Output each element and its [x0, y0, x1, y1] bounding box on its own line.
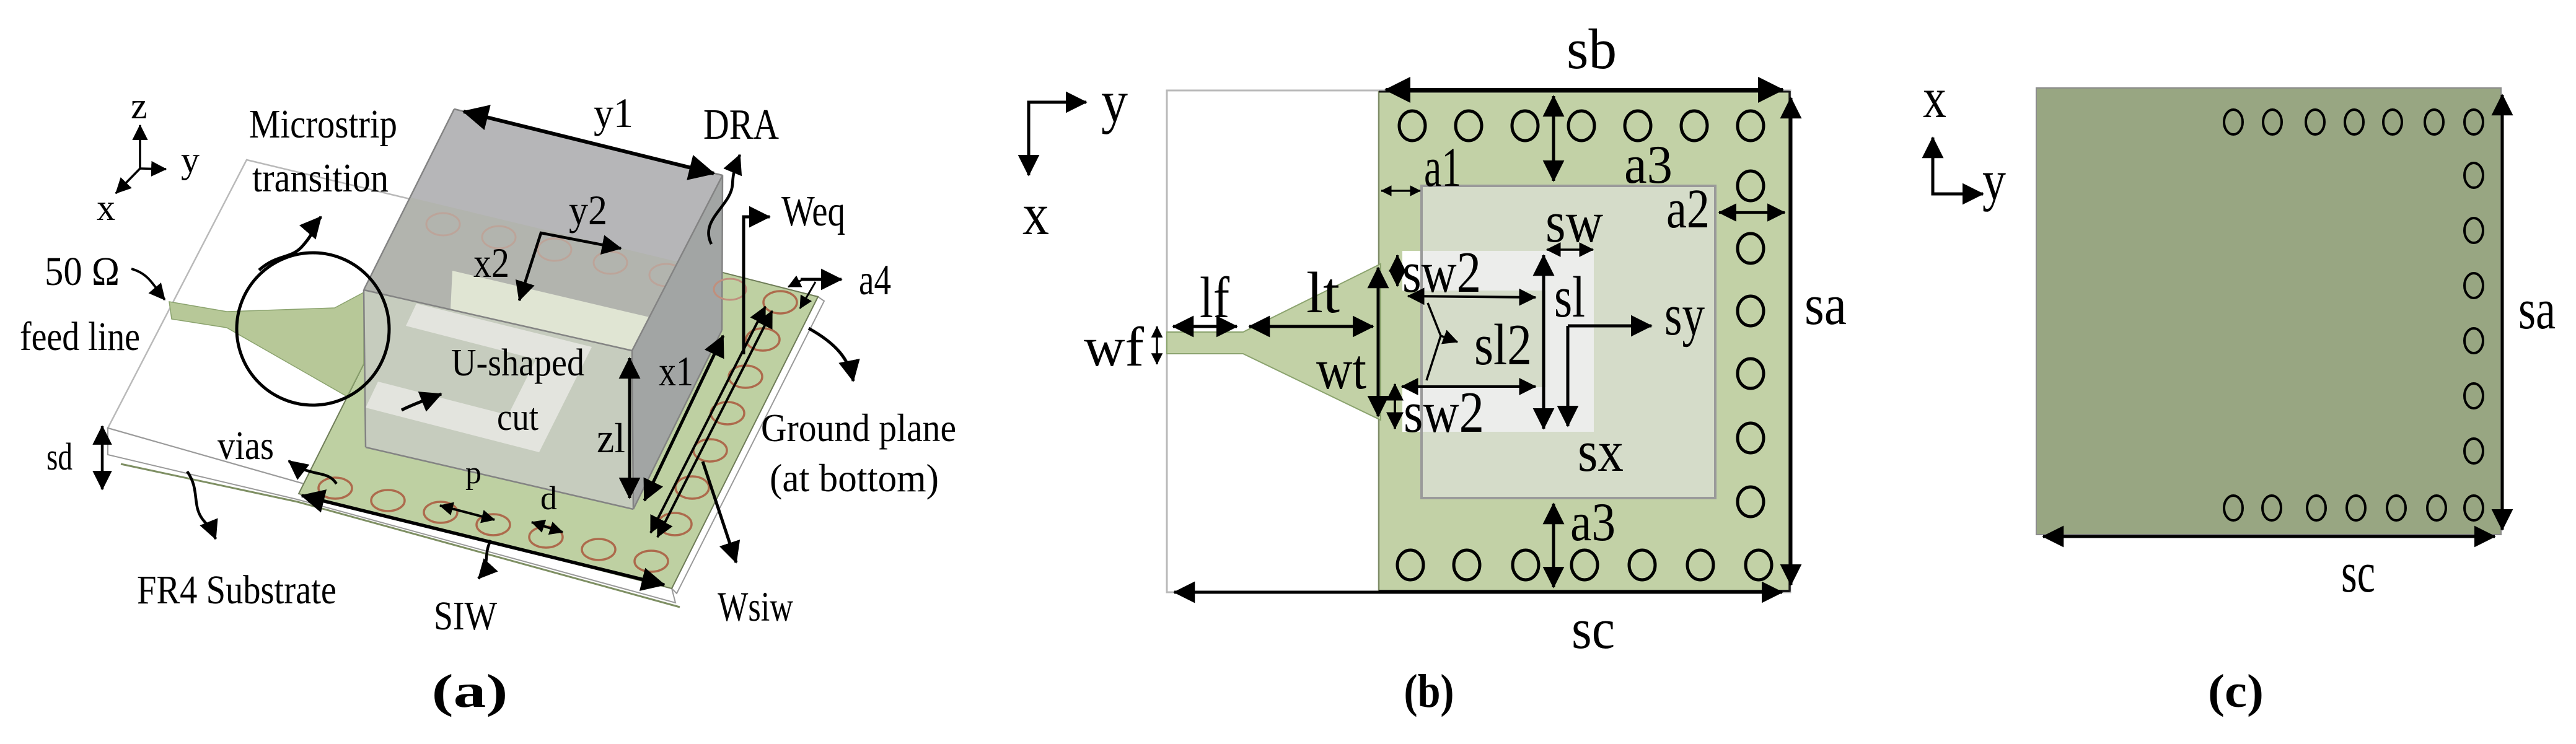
- sx arrow: [1567, 326, 1570, 426]
- svg-text:p: p: [465, 455, 481, 491]
- y1 arrow: [464, 112, 714, 173]
- svg-text:lf: lf: [1200, 266, 1230, 330]
- svg-text:sl2: sl2: [1474, 313, 1532, 377]
- box floor band: [451, 271, 649, 351]
- svg-text:(at bottom): (at bottom): [770, 456, 939, 500]
- vias bottom row (c): [2224, 496, 2483, 520]
- U slot white (b): [1402, 251, 1594, 432]
- y2 x2 arrows: [519, 233, 621, 300]
- transition circle: [237, 253, 389, 405]
- svg-text:y1: y1: [594, 89, 633, 136]
- svg-text:y: y: [181, 139, 200, 180]
- a2 arrow: [1719, 211, 1785, 214]
- vias through box (a): [426, 213, 683, 286]
- svg-text:a4: a4: [859, 256, 891, 304]
- vias right column (b): [1738, 171, 1764, 517]
- lf arrow: [1173, 325, 1237, 328]
- Wsiw double arrow: [651, 307, 765, 533]
- substrate (b): [1167, 90, 1790, 592]
- svg-text:transition: transition: [252, 155, 389, 201]
- svg-text:U-shaped: U-shaped: [451, 342, 584, 384]
- transition leader: [259, 217, 321, 270]
- box front-left wall: [364, 290, 633, 509]
- svg-text:Weq: Weq: [781, 188, 845, 235]
- svg-text:sy: sy: [1664, 283, 1705, 348]
- DRA box upper back region: [411, 109, 723, 273]
- svg-text:wt: wt: [1316, 338, 1366, 401]
- SIW plate (a): [299, 202, 818, 589]
- axes (b): [1029, 102, 1086, 175]
- sl2 top arrow: [1408, 296, 1536, 297]
- SIW edge dim line: [302, 496, 664, 585]
- a1 arrow: [1381, 190, 1420, 191]
- sd arrow: [101, 426, 104, 489]
- DRA box base silhouette: [364, 109, 723, 509]
- svg-text:x2: x2: [473, 239, 509, 286]
- svg-text:Microstrip: Microstrip: [249, 102, 397, 147]
- sw2 top arrow: [1396, 255, 1399, 286]
- a3 bottom arrow: [1552, 504, 1555, 587]
- svg-text:zl: zl: [597, 414, 625, 462]
- svg-text:d: d: [540, 479, 557, 517]
- svg-text:sw: sw: [1545, 190, 1603, 255]
- lt arrow: [1249, 325, 1373, 328]
- svg-text:a2: a2: [1666, 178, 1710, 240]
- SIW copper region (b): [1379, 91, 1790, 592]
- sy arrow: [1568, 325, 1651, 328]
- svg-text:FR4 Substrate: FR4 Substrate: [137, 567, 336, 613]
- Weq: [744, 217, 770, 354]
- sb arrow: [1386, 88, 1783, 92]
- sl2 bottom arrow: [1402, 385, 1536, 388]
- box edges: [364, 109, 723, 509]
- svg-text:(a): (a): [432, 665, 508, 717]
- svg-text:lt: lt: [1306, 261, 1340, 325]
- feed leader: [131, 269, 165, 300]
- axes (a): [116, 125, 166, 193]
- substrate top face (a): [108, 160, 818, 589]
- svg-text:sc: sc: [1572, 597, 1615, 660]
- svg-text:a3: a3: [1624, 135, 1673, 195]
- svg-text:sl: sl: [1554, 265, 1585, 330]
- sa arrow (b): [1790, 98, 1793, 585]
- vias right column (c): [2464, 163, 2483, 463]
- sw2 bottom arrow: [1394, 384, 1396, 429]
- wt arrow: [1377, 268, 1380, 416]
- vias front row (a): [319, 478, 668, 572]
- axes (c): [1933, 138, 1983, 194]
- svg-text:cut: cut: [497, 396, 538, 439]
- sl2 leader: [1426, 303, 1441, 380]
- DRA footprint (b): [1422, 186, 1715, 498]
- svg-text:DRA: DRA: [703, 101, 779, 149]
- svg-text:feed line: feed line: [20, 314, 140, 359]
- feed strip and taper (a): [169, 292, 364, 396]
- svg-text:wf: wf: [1084, 317, 1144, 378]
- vias bottom row (b): [1397, 550, 1772, 580]
- svg-text:50 Ω: 50 Ω: [45, 249, 120, 294]
- vias top row (c): [2224, 110, 2483, 134]
- ground plane (c): [2036, 88, 2501, 535]
- svg-text:Wsiw: Wsiw: [718, 583, 793, 630]
- svg-text:sw2: sw2: [1404, 380, 1484, 445]
- svg-text:a3: a3: [1570, 492, 1615, 553]
- svg-text:(c): (c): [2208, 665, 2264, 717]
- svg-text:sa: sa: [2518, 278, 2556, 341]
- zl arrow: [628, 358, 631, 498]
- via at box corner (a): [714, 279, 746, 300]
- sc arrow (c): [2043, 535, 2495, 538]
- box right wall: [632, 175, 723, 509]
- svg-text:a1: a1: [1424, 137, 1461, 198]
- svg-text:SIW: SIW: [434, 593, 498, 639]
- sa arrow (c): [2501, 95, 2504, 530]
- vias top row (b): [1399, 111, 1764, 141]
- vias right column (a): [658, 291, 797, 535]
- sw arrow: [1547, 248, 1593, 250]
- svg-text:x: x: [1022, 181, 1049, 247]
- svg-text:sb: sb: [1567, 17, 1617, 81]
- svg-text:sa: sa: [1805, 273, 1847, 336]
- svg-text:y: y: [1101, 68, 1128, 134]
- svg-text:y: y: [1982, 149, 2006, 212]
- U cut through wall: [366, 304, 592, 452]
- x1 arrow: [644, 336, 723, 501]
- svg-text:z: z: [131, 85, 147, 126]
- svg-text:Ground plane: Ground plane: [761, 406, 956, 450]
- svg-text:sc: sc: [2341, 541, 2375, 604]
- ground sliver (a): [121, 464, 680, 607]
- feed strip and taper (b): [1167, 264, 1381, 420]
- svg-text:x: x: [1923, 66, 1946, 129]
- substrate SE sliver (a): [672, 297, 824, 593]
- sc arrow: [1174, 591, 1782, 594]
- svg-text:y2: y2: [569, 186, 607, 234]
- p arrow: [440, 505, 495, 520]
- svg-text:(b): (b): [1404, 665, 1454, 717]
- wf arrow: [1156, 326, 1158, 364]
- sl arrow: [1542, 255, 1545, 429]
- svg-text:sd: sd: [46, 436, 73, 478]
- svg-text:sx: sx: [1578, 419, 1624, 484]
- svg-text:x1: x1: [659, 348, 693, 395]
- substrate side (a): [108, 428, 675, 603]
- svg-text:vias: vias: [218, 423, 274, 468]
- d arrow: [532, 522, 563, 532]
- a3 top arrow: [1552, 96, 1555, 181]
- svg-text:x: x: [97, 187, 115, 228]
- a4: [801, 278, 842, 281]
